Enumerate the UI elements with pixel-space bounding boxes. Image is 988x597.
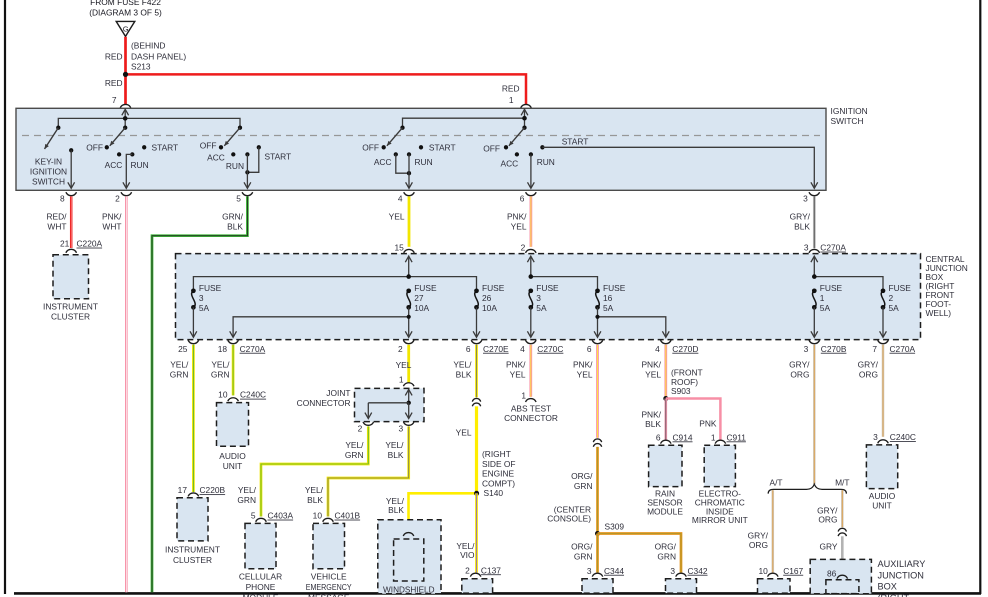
svg-text:BLK: BLK (388, 505, 404, 515)
svg-text:VIO: VIO (460, 550, 475, 560)
svg-text:ORG/: ORG/ (571, 542, 593, 552)
svg-text:AUDIO: AUDIO (869, 491, 896, 501)
svg-text:UNIT: UNIT (872, 501, 892, 511)
svg-text:BLK: BLK (388, 450, 404, 460)
svg-text:CELLULAR: CELLULAR (239, 572, 282, 582)
svg-text:YEL: YEL (389, 211, 405, 221)
svg-text:BLK: BLK (307, 495, 323, 505)
svg-text:2: 2 (889, 293, 894, 303)
svg-text:ORG/: ORG/ (655, 542, 677, 552)
svg-text:3: 3 (399, 424, 404, 434)
svg-text:PNK/: PNK/ (506, 360, 526, 370)
svg-text:RED: RED (502, 84, 520, 94)
svg-text:CLUSTER: CLUSTER (51, 312, 90, 322)
svg-text:PNK/: PNK/ (573, 360, 593, 370)
svg-text:25: 25 (178, 344, 188, 354)
svg-text:10: 10 (758, 566, 768, 576)
svg-text:10A: 10A (482, 303, 497, 313)
svg-text:FROM FUSE F422: FROM FUSE F422 (90, 0, 161, 7)
svg-text:SWITCH: SWITCH (32, 177, 65, 187)
svg-text:YEL: YEL (456, 427, 472, 437)
svg-text:GRY/: GRY/ (789, 360, 810, 370)
svg-text:5: 5 (251, 511, 256, 521)
svg-text:A/T: A/T (769, 478, 782, 488)
svg-text:C220B: C220B (200, 485, 226, 495)
svg-text:S903: S903 (671, 386, 691, 396)
svg-text:CONSOLE): CONSOLE) (547, 514, 591, 524)
svg-text:PNK/: PNK/ (641, 360, 661, 370)
svg-text:C270A: C270A (820, 243, 846, 253)
svg-text:C342: C342 (688, 566, 708, 576)
svg-text:CONNECTOR: CONNECTOR (504, 413, 558, 423)
svg-text:RED: RED (105, 78, 123, 88)
svg-text:1: 1 (711, 432, 716, 442)
svg-text:C270D: C270D (672, 344, 698, 354)
svg-text:6: 6 (587, 344, 592, 354)
svg-text:3: 3 (199, 293, 204, 303)
svg-text:ACC: ACC (207, 153, 225, 163)
svg-text:6: 6 (656, 432, 661, 442)
svg-text:M/T: M/T (835, 478, 849, 488)
svg-text:C270C: C270C (537, 344, 563, 354)
svg-text:4: 4 (398, 194, 403, 204)
svg-text:GRN: GRN (574, 551, 593, 561)
svg-text:MESSAGE: MESSAGE (308, 592, 350, 597)
svg-text:ORG: ORG (790, 369, 809, 379)
svg-text:YEL: YEL (396, 360, 412, 370)
svg-text:8: 8 (60, 194, 65, 204)
svg-text:WHT: WHT (47, 221, 66, 231)
svg-text:5: 5 (236, 194, 241, 204)
svg-text:16: 16 (603, 293, 613, 303)
svg-text:C220A: C220A (77, 239, 103, 249)
svg-text:10A: 10A (414, 303, 429, 313)
svg-text:CLUSTER: CLUSTER (173, 555, 212, 565)
svg-text:C270E: C270E (483, 344, 509, 354)
svg-text:FUSE: FUSE (603, 283, 626, 293)
svg-text:1: 1 (509, 95, 514, 105)
svg-text:GRN: GRN (574, 481, 593, 491)
svg-text:OFF: OFF (86, 143, 103, 153)
svg-text:BLK: BLK (456, 369, 472, 379)
svg-text:YEL/: YEL/ (345, 440, 364, 450)
svg-text:10: 10 (218, 390, 228, 400)
svg-text:C240C: C240C (890, 432, 916, 442)
svg-text:G: G (123, 24, 129, 33)
svg-text:1: 1 (521, 390, 526, 400)
svg-text:(DIAGRAM 3 OF 5): (DIAGRAM 3 OF 5) (89, 8, 162, 18)
svg-text:S213: S213 (131, 62, 151, 72)
svg-text:4: 4 (655, 344, 660, 354)
svg-text:21: 21 (60, 239, 70, 249)
svg-text:18: 18 (218, 344, 228, 354)
svg-text:INSTRUMENT: INSTRUMENT (43, 301, 98, 311)
svg-text:PNK/: PNK/ (641, 410, 661, 420)
svg-text:OFF: OFF (200, 141, 217, 151)
svg-text:ACC: ACC (501, 159, 519, 169)
svg-text:C344: C344 (604, 566, 624, 576)
svg-text:3: 3 (873, 432, 878, 442)
svg-text:5A: 5A (536, 303, 547, 313)
svg-text:INSTRUMENT: INSTRUMENT (165, 545, 220, 555)
svg-text:GRY: GRY (820, 541, 838, 551)
svg-text:YEL: YEL (510, 369, 526, 379)
svg-text:OFF: OFF (362, 143, 379, 153)
svg-text:GRY/: GRY/ (790, 211, 811, 221)
svg-text:3: 3 (803, 194, 808, 204)
svg-text:WELL): WELL) (926, 308, 952, 318)
svg-text:2: 2 (115, 194, 120, 204)
svg-text:START: START (562, 137, 589, 147)
svg-text:3: 3 (804, 344, 809, 354)
svg-text:START: START (152, 143, 179, 153)
svg-text:GRN: GRN (657, 551, 676, 561)
svg-text:26: 26 (482, 293, 492, 303)
svg-text:RUN: RUN (537, 157, 555, 167)
svg-text:6: 6 (466, 344, 471, 354)
svg-text:DASH PANEL): DASH PANEL) (131, 52, 186, 62)
svg-text:WHT: WHT (102, 221, 121, 231)
svg-text:5A: 5A (199, 303, 210, 313)
svg-text:C403A: C403A (268, 511, 294, 521)
svg-text:GRN: GRN (237, 495, 256, 505)
svg-text:FUSE: FUSE (536, 283, 559, 293)
svg-text:PNK: PNK (699, 419, 717, 429)
svg-text:(RIGHT: (RIGHT (878, 593, 910, 597)
svg-text:YEL/: YEL/ (385, 440, 404, 450)
svg-text:C911: C911 (727, 432, 747, 442)
svg-text:ORG/: ORG/ (571, 471, 593, 481)
svg-text:MODULE: MODULE (243, 592, 279, 597)
svg-text:ORG: ORG (749, 540, 768, 550)
svg-text:2: 2 (358, 424, 363, 434)
svg-text:YEL/: YEL/ (453, 360, 472, 370)
svg-text:5A: 5A (889, 303, 900, 313)
svg-text:(RIGHT: (RIGHT (482, 449, 511, 459)
svg-text:GRN: GRN (345, 450, 364, 460)
svg-text:FUSE: FUSE (820, 283, 843, 293)
svg-text:START: START (429, 143, 456, 153)
svg-text:S309: S309 (605, 521, 625, 531)
svg-text:7: 7 (872, 344, 877, 354)
svg-text:GRN: GRN (170, 369, 189, 379)
svg-text:C270B: C270B (821, 344, 847, 354)
svg-text:2: 2 (398, 344, 403, 354)
svg-text:RUN: RUN (226, 161, 244, 171)
svg-text:C270A: C270A (240, 344, 266, 354)
svg-text:OFF: OFF (483, 144, 500, 154)
svg-text:MODULE: MODULE (647, 506, 683, 516)
svg-text:GRN/: GRN/ (222, 211, 244, 221)
svg-text:C167: C167 (783, 566, 803, 576)
svg-text:SWITCH: SWITCH (831, 116, 864, 126)
svg-text:GRY/: GRY/ (858, 360, 879, 370)
svg-text:ACC: ACC (374, 157, 392, 167)
svg-text:FUSE: FUSE (199, 283, 222, 293)
svg-text:YEL: YEL (645, 369, 661, 379)
svg-text:YEL: YEL (511, 221, 527, 231)
svg-text:17: 17 (178, 485, 188, 495)
svg-text:AUDIO: AUDIO (219, 451, 246, 461)
svg-text:SIDE OF: SIDE OF (482, 459, 516, 469)
svg-text:ENGINE: ENGINE (482, 469, 515, 479)
svg-text:3: 3 (536, 293, 541, 303)
svg-text:4: 4 (520, 344, 525, 354)
svg-text:3: 3 (804, 243, 809, 253)
svg-text:3: 3 (670, 566, 675, 576)
svg-text:VEHICLE: VEHICLE (311, 572, 347, 582)
svg-text:BLK: BLK (645, 419, 661, 429)
svg-text:BLK: BLK (794, 221, 810, 231)
svg-text:5A: 5A (820, 303, 831, 313)
svg-text:C137: C137 (481, 565, 501, 575)
svg-text:RED/: RED/ (46, 211, 67, 221)
svg-text:ACC: ACC (105, 160, 123, 170)
svg-text:CONNECTOR: CONNECTOR (297, 398, 351, 408)
svg-text:JUNCTION: JUNCTION (878, 570, 924, 580)
svg-text:7: 7 (112, 95, 117, 105)
svg-text:FUSE: FUSE (482, 283, 505, 293)
svg-text:ORG: ORG (818, 515, 837, 525)
svg-text:YEL/: YEL/ (211, 360, 230, 370)
svg-text:MIRROR UNIT: MIRROR UNIT (692, 515, 748, 525)
svg-text:YEL/: YEL/ (238, 485, 257, 495)
svg-text:GRN: GRN (211, 369, 230, 379)
svg-text:PNK/: PNK/ (507, 211, 527, 221)
svg-text:YEL: YEL (577, 369, 593, 379)
svg-text:FUSE: FUSE (889, 283, 912, 293)
svg-text:GRY/: GRY/ (748, 530, 769, 540)
svg-text:AUXILIARY: AUXILIARY (878, 559, 926, 569)
svg-text:6: 6 (520, 194, 525, 204)
svg-text:27: 27 (414, 293, 424, 303)
svg-text:YEL/: YEL/ (305, 485, 324, 495)
svg-text:KEY-IN: KEY-IN (35, 157, 62, 167)
svg-text:RED: RED (105, 52, 123, 62)
svg-text:1: 1 (820, 293, 825, 303)
svg-text:START: START (265, 152, 292, 162)
svg-text:IGNITION: IGNITION (831, 106, 868, 116)
svg-text:EMERGENCY: EMERGENCY (306, 582, 352, 592)
svg-text:WINDSHIELD: WINDSHIELD (383, 584, 435, 594)
svg-text:10: 10 (313, 511, 323, 521)
svg-text:YEL/: YEL/ (170, 360, 189, 370)
svg-text:COMPT): COMPT) (482, 478, 515, 488)
svg-text:FUSE: FUSE (414, 283, 437, 293)
svg-text:PNK/: PNK/ (102, 211, 122, 221)
svg-text:BOX: BOX (878, 582, 897, 592)
svg-text:2: 2 (465, 565, 470, 575)
svg-text:2: 2 (521, 243, 526, 253)
svg-text:S140: S140 (484, 488, 504, 498)
svg-text:C401B: C401B (335, 511, 361, 521)
svg-text:86: 86 (827, 569, 837, 579)
svg-text:C270A: C270A (890, 344, 916, 354)
svg-text:RUN: RUN (415, 157, 433, 167)
svg-text:C914: C914 (673, 432, 693, 442)
svg-text:15: 15 (394, 243, 404, 253)
svg-text:JOINT: JOINT (326, 388, 350, 398)
svg-text:UNIT: UNIT (223, 461, 243, 471)
svg-text:PHONE: PHONE (246, 582, 276, 592)
svg-text:C240C: C240C (240, 390, 266, 400)
svg-text:RUN: RUN (131, 160, 149, 170)
svg-text:IGNITION: IGNITION (30, 167, 67, 177)
svg-text:5A: 5A (603, 303, 614, 313)
svg-text:3: 3 (587, 566, 592, 576)
svg-text:1: 1 (399, 375, 404, 385)
svg-text:ORG: ORG (859, 369, 878, 379)
svg-text:(BEHIND: (BEHIND (131, 41, 165, 51)
svg-text:BLK: BLK (227, 221, 243, 231)
